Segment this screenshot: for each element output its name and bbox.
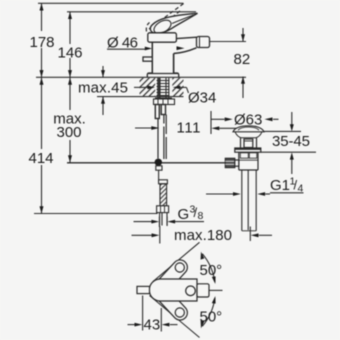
arrow max300 top (68, 78, 72, 85)
svg-text:50°: 50° (200, 309, 223, 326)
arrow max180 left (152, 233, 160, 237)
111 extension line (210, 111, 212, 134)
dimension 414 line (41, 78, 43, 150)
50deg arc upper (202, 254, 215, 282)
arrow max45 bottom (101, 97, 105, 104)
50deg arc lower (202, 298, 215, 326)
pipe edge ticks (158, 217, 160, 228)
shank threads (157, 81, 170, 96)
ball joint (155, 159, 162, 166)
svg-text:43: 43 (144, 317, 161, 334)
arrow dia63 right (265, 117, 273, 121)
lever inner loop (152, 17, 174, 36)
svg-text:111: 111 (177, 120, 201, 137)
spout bottom edge (174, 48, 197, 54)
pop-up rod horizontal line / max300 extension (67, 162, 226, 164)
knob left rect (137, 286, 150, 293)
arrow G1 right (257, 192, 265, 196)
lever stub (197, 284, 209, 297)
arrow 414 bottom (40, 206, 44, 213)
svg-text:178: 178 (29, 34, 54, 51)
mounting nut under deck (154, 99, 175, 105)
svg-text:Ø63: Ø63 (234, 112, 262, 129)
svg-text:Ø34: Ø34 (188, 90, 216, 107)
arrow dia63 left (225, 117, 233, 121)
base escutcheon (147, 54, 178, 78)
aerator (197, 37, 210, 48)
aerator extension line (210, 41, 247, 43)
43 extension line left (142, 296, 144, 331)
arrow max180 right (251, 233, 259, 237)
dimension 178 line (41, 3, 43, 31)
rod lower fitting (156, 166, 162, 170)
svg-text:G1: G1 (270, 177, 290, 194)
arrow 43 left (135, 323, 143, 327)
threaded shank (154, 78, 175, 105)
horizontal mid line right of stub (209, 289, 223, 291)
dia46 underline leader (107, 48, 145, 50)
arrow max45 top (101, 70, 105, 77)
tailpipe (242, 170, 256, 231)
svg-text:8: 8 (198, 210, 204, 222)
extension line lever rest height (67, 11, 196, 13)
lever arm rotated up (149, 257, 190, 300)
arrow G38 right (167, 220, 175, 224)
arrow G1 left (233, 192, 241, 196)
G3/8 nipple (160, 184, 167, 206)
spout top edge (176, 37, 197, 38)
arrow dia34 right (173, 86, 181, 90)
G1 1/4 underline (270, 192, 304, 194)
svg-text:146: 146 (57, 45, 82, 62)
pull rod line (157, 119, 159, 159)
supply hose double line (163, 115, 165, 124)
50deg extension line upper (153, 242, 200, 281)
centerline tick faucet (159, 226, 161, 244)
supply hose upper tube (161, 105, 165, 115)
arrow arc upper top (201, 252, 205, 260)
arrow arc lower bottom (201, 320, 205, 328)
supply pipe (160, 213, 167, 226)
lever raised dashed outline (146, 3, 184, 31)
lever inner line (172, 15, 194, 24)
upper arm circle (175, 263, 184, 272)
dia34 leader arrows (134, 87, 189, 93)
waste body (241, 138, 257, 148)
deck top line (36, 76, 246, 78)
lower arm circle (175, 308, 184, 317)
dimension 146 line (69, 12, 71, 44)
arrow dia46 left (145, 47, 152, 51)
waste top nut (235, 148, 261, 152)
arrow arc lower top (212, 296, 216, 304)
G3/8 collar (159, 180, 168, 184)
arrow max300 bottom (68, 155, 72, 162)
svg-text:300: 300 (56, 124, 81, 141)
faucet body (152, 42, 173, 73)
arrow 178 bottom (40, 70, 44, 77)
clamp block (225, 158, 235, 167)
lever handle rest position (150, 13, 197, 33)
max45 dimension line lower (102, 97, 104, 115)
arrow 82 top (241, 34, 245, 41)
arrow 35-45 bottom (290, 152, 294, 159)
arrow 146 bottom (68, 70, 72, 77)
dimension 82 line upper (242, 28, 244, 42)
dimension 82 line lower (242, 77, 244, 99)
svg-text:414: 414 (28, 150, 53, 167)
arrow 111 left (151, 126, 159, 130)
deck max-depth line (97, 96, 184, 98)
clamp connector (235, 160, 239, 166)
414 bottom extension line (34, 213, 158, 215)
arrow 35-45 top (290, 124, 294, 131)
arrow 178 top (40, 3, 44, 10)
arrow 146 top (68, 12, 72, 19)
flange skirt (235, 132, 262, 138)
waste plug (244, 139, 253, 148)
43 extension line right (centerline) (160, 308, 162, 332)
svg-text:4: 4 (298, 183, 304, 195)
svg-text:G: G (178, 206, 190, 223)
svg-text:max.180: max.180 (174, 227, 232, 244)
arrow 414 top (40, 78, 44, 85)
arrow 111 right (211, 126, 219, 130)
svg-text:50°: 50° (200, 262, 223, 279)
svg-text:max.45: max.45 (78, 80, 128, 97)
lever capsule middle position (149, 279, 197, 301)
cartridge cap (148, 33, 177, 42)
arrow G38 left (151, 220, 159, 224)
arrow 43 right (162, 323, 170, 327)
waste flange dome (233, 126, 264, 132)
bidet rim line under flange (264, 130, 301, 132)
dimension max300 line (69, 78, 71, 111)
centerline tick waste (249, 227, 251, 242)
arrow dia46 right (177, 46, 185, 50)
extension line top (lever raised height) (38, 2, 184, 4)
G3/8 nut (157, 206, 169, 213)
svg-text:82: 82 (234, 51, 251, 68)
svg-text:Ø 46: Ø 46 (107, 35, 138, 52)
arrow 82 bottom (241, 77, 245, 84)
lever arm rotated down (149, 280, 190, 323)
max45 dimension line upper (102, 66, 104, 77)
dimension texts top-left (28, 34, 250, 167)
arrow arc upper bottom (212, 276, 216, 284)
arrowheads for vertical dimensions (40, 3, 246, 213)
upper tailpiece block (239, 152, 258, 170)
deck hatched right block (172, 78, 183, 96)
pull-rod knob tab (143, 57, 152, 61)
waste nut bottom line (261, 151, 316, 153)
svg-text:35-45: 35-45 (272, 133, 310, 150)
arrow dia34 left (148, 86, 156, 90)
cartridge circle (186, 286, 196, 296)
pull rod upper tube (155, 105, 159, 119)
50deg extension line lower (150, 296, 200, 338)
deck hatched left block (140, 78, 184, 96)
